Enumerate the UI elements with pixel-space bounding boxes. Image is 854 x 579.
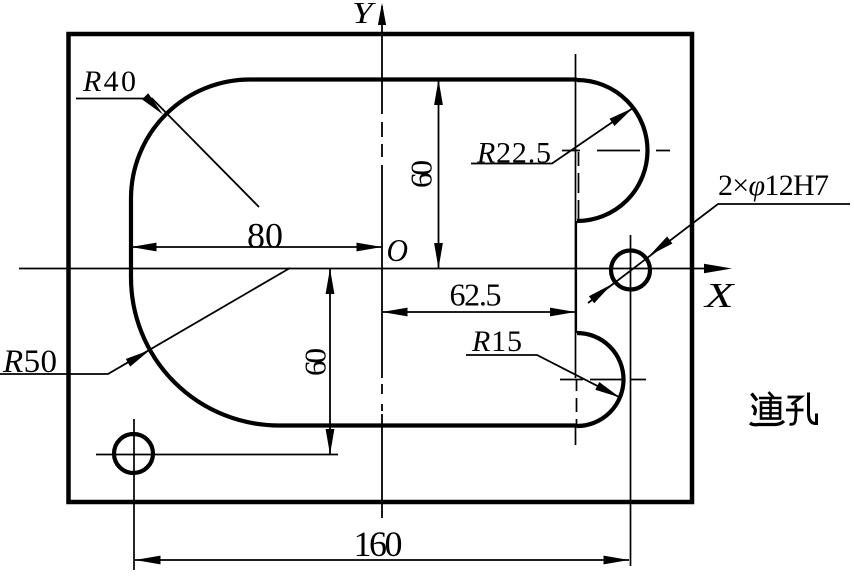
svg-text:R22.5: R22.5	[476, 137, 551, 170]
leader R40	[76, 99, 259, 208]
dashed vertical centerline of R22.5	[578, 152, 580, 222]
dimension 160 line	[135, 559, 629, 561]
part outline rectangle	[69, 34, 693, 502]
left hole horizontal centerline	[96, 454, 338, 456]
hole circle left (phi12H7)	[114, 434, 153, 473]
hole circle right (phi12H7)	[611, 251, 650, 290]
svg-text:62.5: 62.5	[450, 277, 502, 313]
dimension 60 (lower) line	[329, 269, 331, 455]
dashed horizontal centerline of R15	[560, 379, 646, 381]
svg-text:X: X	[702, 276, 735, 315]
annotation text tong-kong (through hole), drawn strokes	[750, 392, 817, 425]
dimension 60 (upper) line	[438, 80, 440, 269]
leader R15	[466, 355, 620, 398]
right hole vertical centerline	[630, 235, 632, 566]
R15 arc bump	[577, 333, 624, 426]
svg-text:O: O	[387, 232, 409, 268]
leader 2xphi12H7	[588, 204, 850, 303]
dashed horizontal centerline of R22.5	[562, 150, 670, 152]
svg-text:80: 80	[247, 216, 283, 256]
svg-text:R15: R15	[471, 325, 522, 358]
dashed vertical centerline of R15	[576, 379, 578, 424]
svg-text:60: 60	[298, 348, 333, 376]
dimension 80 line	[131, 246, 382, 248]
contour right vertical segment between R22.5 and R15	[575, 221, 577, 333]
svg-text:2×φ12H7: 2×φ12H7	[718, 169, 829, 202]
left hole vertical centerline	[133, 419, 135, 570]
pocket contour: top line + R22.5 arc	[250, 80, 648, 222]
dimension 62.5 line	[382, 311, 576, 313]
X axis	[19, 268, 706, 270]
svg-text:Y: Y	[352, 0, 376, 30]
svg-text:R40: R40	[82, 65, 136, 98]
extension line through R22.5/R15 centers (x=575.5)	[575, 54, 577, 378]
Y axis (centerline with dashed sections)	[381, 6, 383, 518]
contour bottom line + R50 arc + left straight + R40 arc	[131, 80, 577, 426]
leader R22.5	[471, 108, 633, 164]
svg-text:60: 60	[404, 160, 439, 188]
leader R50	[0, 268, 290, 374]
svg-text:160: 160	[354, 524, 403, 564]
svg-text:R50: R50	[2, 344, 57, 380]
